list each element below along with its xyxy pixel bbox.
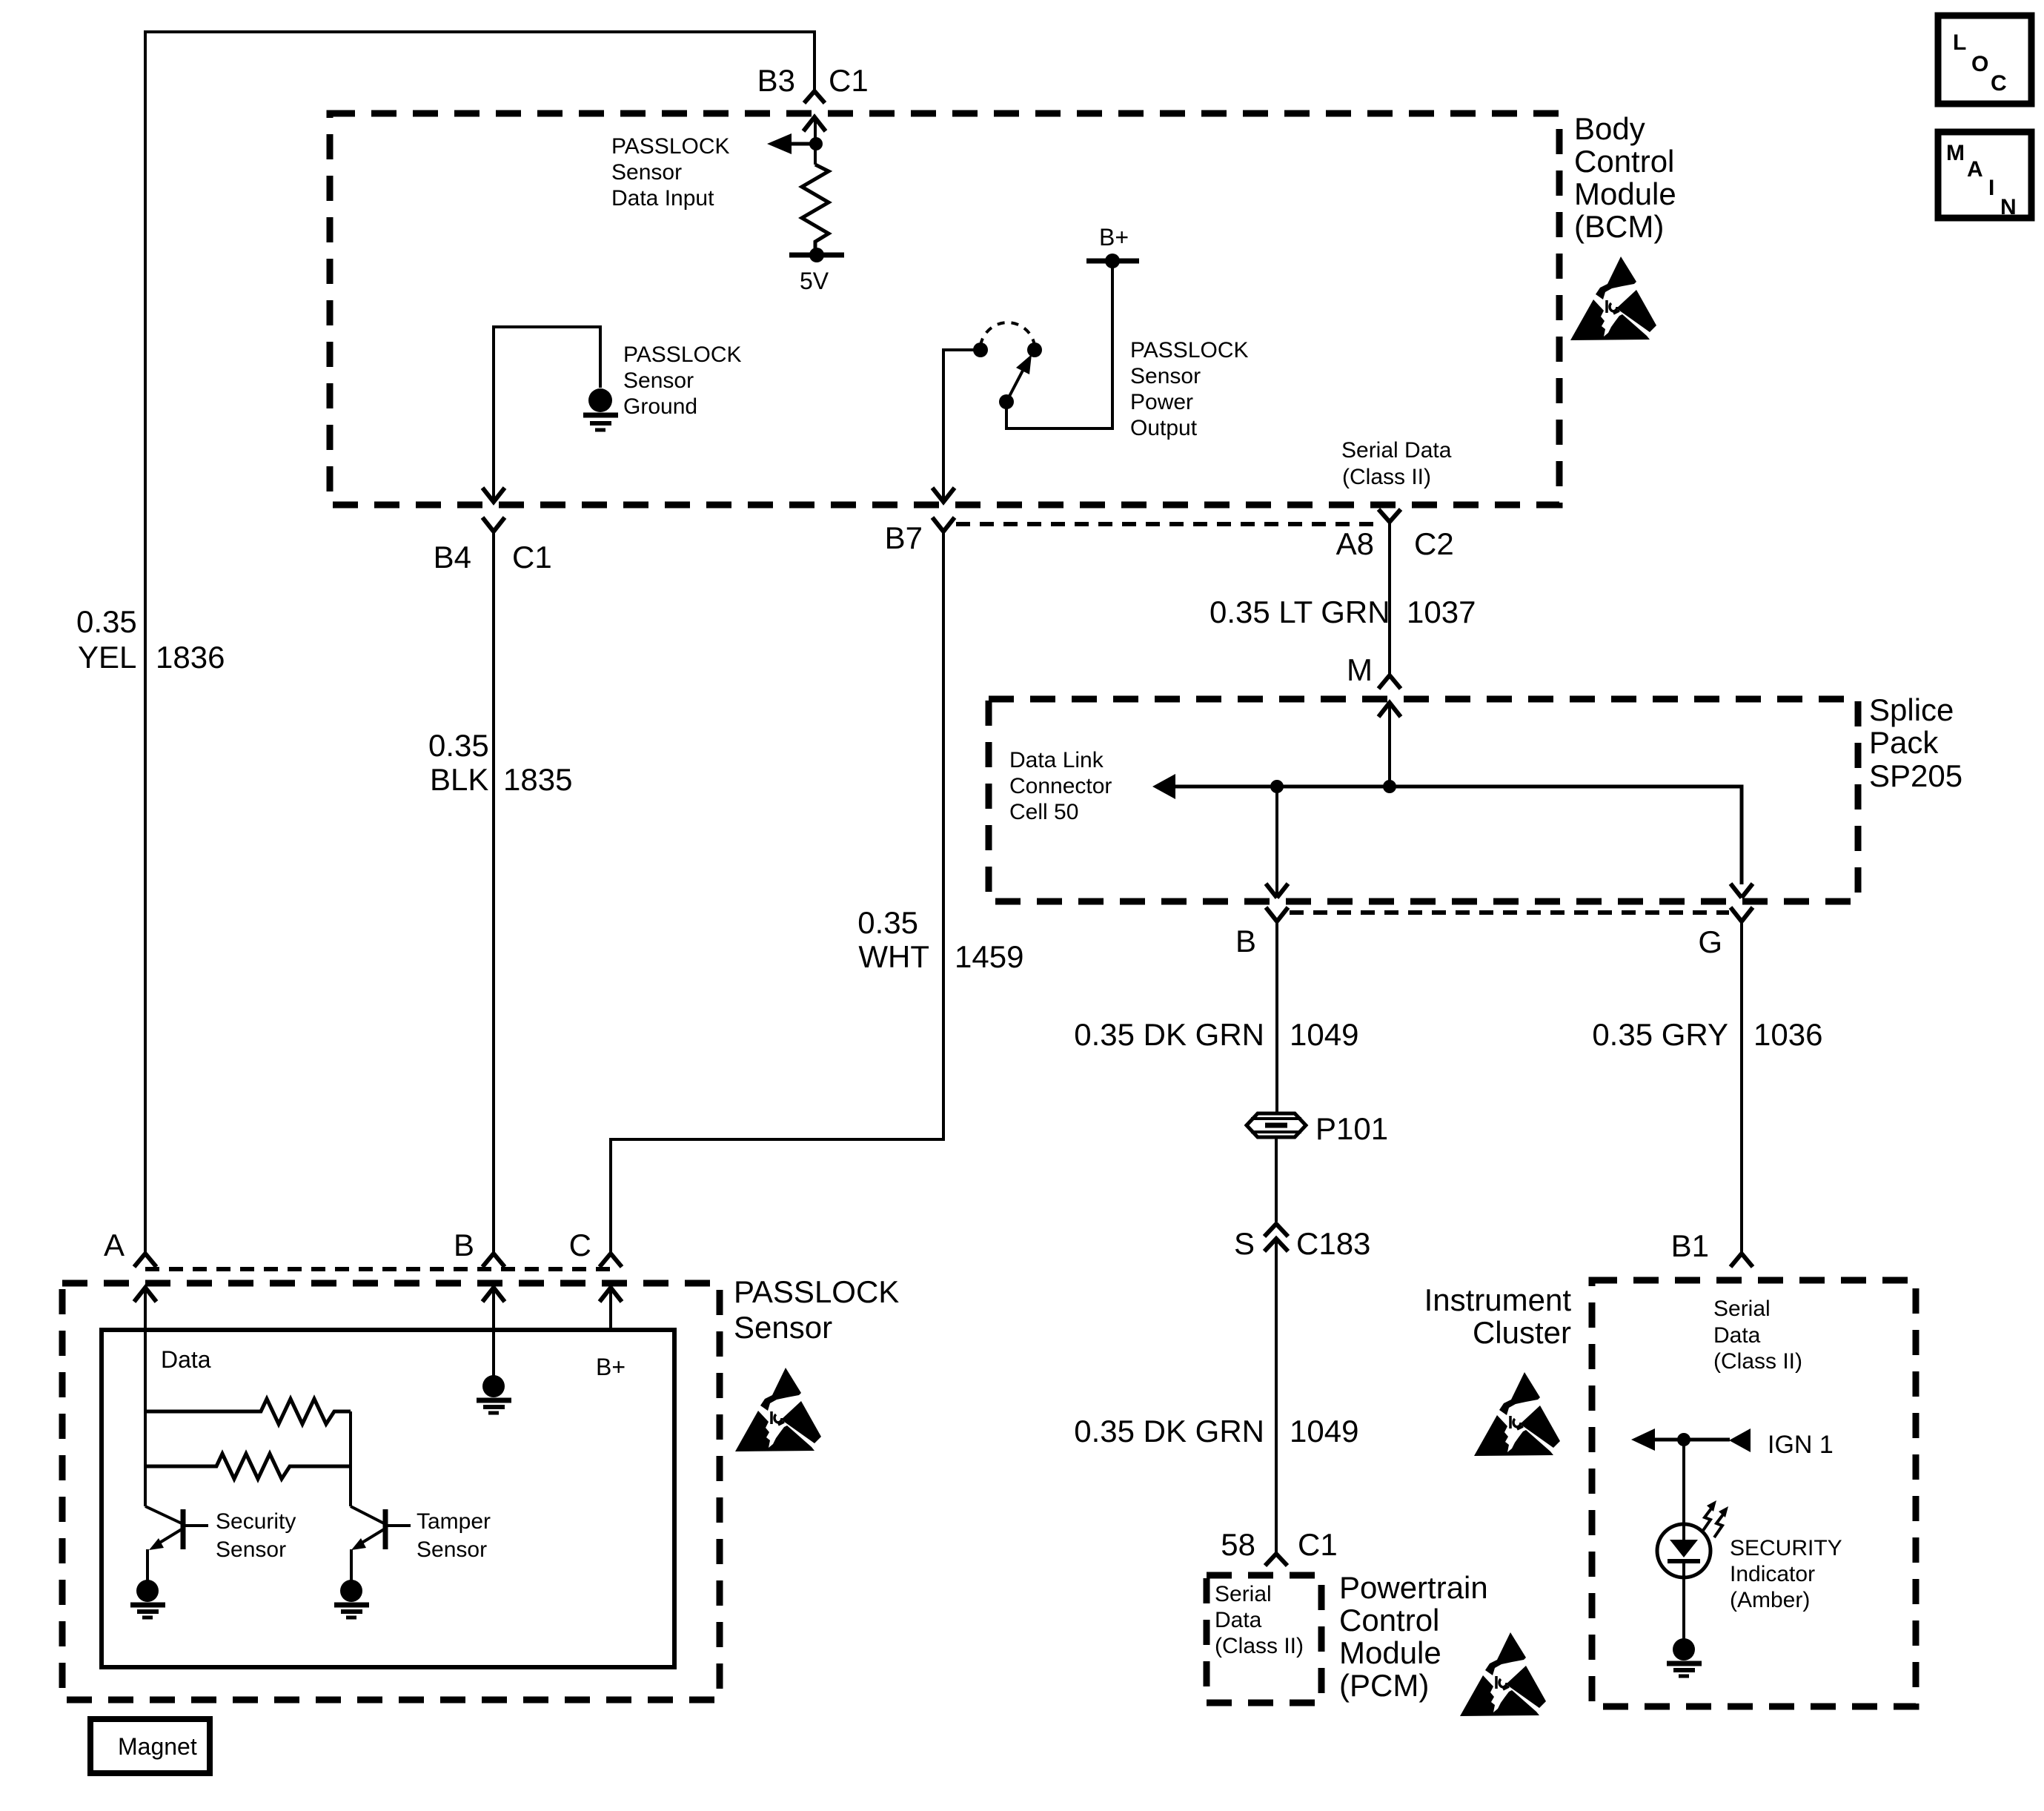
connector C1 terminal 58 (fork): [1265, 1554, 1287, 1566]
svg-text:Ground: Ground: [623, 394, 697, 419]
connector terminal M (fork): [1378, 675, 1401, 689]
svg-text:Pack: Pack: [1869, 725, 1939, 760]
svg-text:Module: Module: [1574, 176, 1676, 211]
arrow out of SP205 at B: [1266, 884, 1288, 898]
wire pin C internal: [609, 1288, 612, 1330]
ESD symbol (BCM): [1570, 256, 1656, 340]
arrow into SP205 at M: [1378, 703, 1401, 717]
MAIN reference box: [1938, 132, 2031, 219]
svg-text:(Class II): (Class II): [1342, 465, 1431, 489]
svg-text:1835: 1835: [503, 762, 572, 797]
svg-text:A: A: [104, 1228, 125, 1262]
svg-text:1049: 1049: [1290, 1414, 1358, 1449]
wire: BCM internal ground trace to pin B4: [494, 327, 600, 502]
label Data Link Connector Cell 50: [1009, 748, 1112, 824]
label wire 0.35 BLK: [428, 728, 489, 797]
svg-text:Control: Control: [1574, 144, 1674, 179]
connector terminal B1 (fork): [1731, 1254, 1753, 1267]
Body Control Module (BCM) dashed box: [330, 113, 1559, 505]
transistor security sensor: [145, 1506, 208, 1580]
svg-text:B1: B1: [1671, 1228, 1709, 1263]
svg-text:58: 58: [1221, 1527, 1255, 1562]
LED SECURITY indicator: [1657, 1524, 1710, 1639]
wire pin A internal: [144, 1288, 147, 1506]
wire M arrow to splice bus: [1388, 703, 1391, 787]
label Tamper Sensor: [417, 1509, 491, 1562]
svg-text:C2: C2: [1414, 526, 1454, 561]
svg-text:1459: 1459: [955, 939, 1023, 974]
label Instrument Cluster: [1424, 1282, 1572, 1350]
light emission arrows: [1702, 1506, 1725, 1537]
ground dot (security emitter): [136, 1580, 159, 1602]
resistor R1 (tamper): [145, 1399, 351, 1424]
ground symbol (Passlock Sensor Ground): [583, 415, 618, 430]
svg-text:Data: Data: [1215, 1608, 1262, 1632]
svg-text:0.35: 0.35: [428, 728, 489, 763]
svg-text:0.35 DK GRN: 0.35 DK GRN: [1074, 1017, 1264, 1052]
arrow to Passlock Sensor Data Input: [792, 142, 816, 146]
svg-text:P101: P101: [1315, 1111, 1388, 1146]
wire: BCM B7 to sensor pin C (0.35 WHT 1459): [611, 532, 943, 1254]
arrow into sensor at A: [134, 1288, 156, 1302]
label Security Sensor: [216, 1509, 296, 1562]
svg-text:Sensor: Sensor: [1130, 364, 1201, 388]
wire pin B internal to ground: [492, 1288, 495, 1376]
arrow out of SP205 at G: [1731, 884, 1753, 898]
connector terminal B (fork): [1266, 907, 1288, 921]
junction dot IGN1: [1677, 1433, 1690, 1446]
svg-text:YEL: YEL: [78, 640, 136, 675]
svg-text:Sensor: Sensor: [417, 1537, 487, 1562]
Passlock Sensor dashed box: [62, 1283, 720, 1700]
svg-text:A8: A8: [1336, 526, 1374, 561]
svg-text:0.35 LT GRN: 0.35 LT GRN: [1210, 595, 1390, 629]
svg-text:Splice: Splice: [1869, 692, 1954, 727]
ground symbol (tamper): [334, 1605, 369, 1618]
wire IGN1 to LED: [1682, 1440, 1685, 1540]
svg-text:Data: Data: [1713, 1323, 1761, 1348]
sensor inner solid box: [102, 1330, 674, 1667]
ground symbol (indicator): [1667, 1663, 1702, 1676]
switch travel dashed arc: [980, 322, 1035, 345]
dot on B+ bar: [1105, 254, 1120, 268]
switch upper-right contact dot: [1027, 342, 1042, 357]
svg-text:Data Input: Data Input: [611, 186, 714, 211]
svg-text:PASSLOCK: PASSLOCK: [611, 134, 730, 159]
svg-text:0.35: 0.35: [857, 905, 918, 940]
IGN 1 feed line: [1655, 1438, 1730, 1442]
switch arm with arrowhead: [1006, 369, 1023, 402]
arrow to Data Link Connector: [1152, 774, 1175, 799]
arrow from IGN 1: [1729, 1428, 1751, 1452]
Splice Pack SP205 dashed box: [989, 699, 1858, 901]
label Powertrain Control Module (PCM): [1339, 1570, 1488, 1703]
svg-text:B3: B3: [757, 63, 795, 98]
ESD symbol (Instrument Cluster): [1474, 1372, 1560, 1456]
switch upper-left contact dot: [973, 342, 988, 357]
connector terminal B fork (sensor): [482, 1254, 505, 1267]
resistor R2 (security): [145, 1454, 351, 1479]
svg-text:B: B: [454, 1228, 474, 1262]
wire P101 to C183: [1275, 1137, 1278, 1222]
connector C1 terminal B3 (fork): [804, 91, 825, 103]
arrow left (IGN 1 bus): [1631, 1428, 1655, 1451]
thin dashed connector line (sensor A to C): [145, 1267, 611, 1271]
connector terminal C fork (sensor): [600, 1254, 622, 1267]
wire: BCM A8 to splice pack M (0.35 LT GRN 1037): [1388, 522, 1391, 675]
label Serial Data (Class II) cluster: [1713, 1297, 1802, 1374]
arrow out of BCM at B7: [932, 488, 955, 502]
svg-text:1049: 1049: [1290, 1017, 1358, 1052]
svg-text:Instrument: Instrument: [1424, 1282, 1572, 1317]
label wire 0.35 WHT: [857, 905, 929, 974]
svg-text:Output: Output: [1130, 416, 1198, 440]
svg-text:Power: Power: [1130, 390, 1193, 414]
svg-text:Data Link: Data Link: [1009, 748, 1104, 772]
svg-text:G: G: [1698, 924, 1722, 959]
Instrument Cluster dashed box: [1592, 1280, 1916, 1706]
svg-text:Sensor: Sensor: [611, 160, 682, 185]
svg-text:B+: B+: [596, 1354, 626, 1380]
svg-text:A: A: [1967, 157, 1983, 182]
svg-text:IGN 1: IGN 1: [1768, 1431, 1834, 1459]
svg-text:C: C: [569, 1228, 591, 1262]
junction dot splice B: [1270, 780, 1284, 793]
svg-text:WHT: WHT: [858, 939, 929, 974]
svg-text:0.35: 0.35: [76, 604, 137, 639]
svg-text:C1: C1: [1298, 1527, 1338, 1562]
ground symbol (sensor): [477, 1400, 511, 1413]
svg-text:PASSLOCK: PASSLOCK: [734, 1274, 899, 1309]
label PASSLOCK Sensor Data Input: [611, 134, 730, 211]
grommet P101: [1247, 1113, 1306, 1137]
5V supply bar: [789, 253, 844, 258]
svg-text:(Class II): (Class II): [1215, 1634, 1304, 1658]
arrow into sensor at B: [482, 1288, 505, 1302]
svg-text:PASSLOCK: PASSLOCK: [623, 342, 742, 367]
ground symbol (security): [130, 1605, 165, 1618]
svg-text:SECURITY: SECURITY: [1730, 1536, 1842, 1560]
svg-text:S: S: [1234, 1226, 1255, 1261]
svg-text:B4: B4: [434, 540, 471, 575]
label SECURITY Indicator (Amber): [1730, 1536, 1842, 1612]
svg-text:Serial: Serial: [1215, 1582, 1272, 1606]
ESD symbol (Passlock Sensor): [735, 1368, 821, 1451]
svg-text:SP205: SP205: [1869, 758, 1962, 793]
arrow into sensor at C: [600, 1288, 622, 1302]
label PASSLOCK Sensor Ground: [623, 342, 742, 419]
inline connector C183 (double chevron): [1264, 1224, 1288, 1251]
label Serial Data (Class II) PCM: [1215, 1582, 1304, 1658]
wire B3 arrow to resistor: [814, 117, 817, 165]
svg-text:1036: 1036: [1753, 1017, 1822, 1052]
resistor (BCM 5V pull-up): [802, 165, 829, 255]
label Splice Pack SP205: [1869, 692, 1962, 793]
svg-text:Data: Data: [161, 1346, 211, 1373]
svg-text:(Class II): (Class II): [1713, 1349, 1802, 1374]
svg-text:1037: 1037: [1407, 595, 1476, 629]
label wire 0.35 YEL: [76, 604, 137, 675]
svg-text:Cell 50: Cell 50: [1009, 800, 1078, 824]
wire resistor node to tamper collector: [349, 1411, 352, 1506]
LOC reference box: [1938, 16, 2031, 104]
svg-text:0.35 DK GRN: 0.35 DK GRN: [1074, 1414, 1264, 1449]
connector terminal A (fork): [134, 1254, 156, 1267]
svg-text:PASSLOCK: PASSLOCK: [1130, 338, 1249, 362]
svg-text:C1: C1: [829, 63, 869, 98]
svg-text:C183: C183: [1296, 1226, 1370, 1261]
wire B+ to switch common: [1006, 261, 1112, 428]
svg-text:(BCM): (BCM): [1574, 209, 1664, 244]
svg-text:Tamper: Tamper: [417, 1509, 491, 1534]
arrow into BCM at B3: [803, 117, 826, 131]
label Serial Data (Class II) BCM: [1341, 438, 1452, 489]
svg-text:5V: 5V: [800, 268, 829, 294]
junction dot splice M: [1383, 780, 1396, 793]
svg-text:Sensor: Sensor: [734, 1310, 832, 1345]
wire: Passlock sensor pin A to BCM pin B3 (0.35 YEL 1836): [145, 32, 814, 1254]
thin dashed connector line C1 (B7 to A8 span): [956, 522, 1377, 526]
ground dot (indicator): [1673, 1638, 1695, 1661]
wire switch to pin B7: [943, 350, 980, 502]
ground dot (Passlock Sensor Ground): [588, 388, 612, 412]
wire: BCM B4 to sensor pin B (0.35 BLK 1835): [492, 532, 495, 1254]
svg-text:C1: C1: [512, 540, 552, 575]
svg-text:Sensor: Sensor: [623, 368, 694, 393]
thin dashed connector line (B to G): [1290, 910, 1729, 915]
label PASSLOCK Sensor: [734, 1274, 899, 1345]
svg-text:(Amber): (Amber): [1730, 1588, 1810, 1612]
svg-text:L: L: [1953, 30, 1966, 55]
wire: splice G to cluster B1 (0.35 GRY 1036): [1740, 921, 1743, 1254]
ground dot (sensor B+ return): [482, 1375, 505, 1397]
svg-text:Serial: Serial: [1713, 1297, 1771, 1321]
ground dot (tamper emitter): [340, 1580, 362, 1602]
label PASSLOCK Sensor Power Output: [1130, 338, 1249, 440]
svg-text:Connector: Connector: [1009, 774, 1112, 798]
ESD symbol (PCM): [1460, 1632, 1546, 1716]
svg-text:Control: Control: [1339, 1603, 1439, 1638]
svg-text:M: M: [1347, 652, 1373, 687]
svg-text:N: N: [2000, 195, 2017, 219]
svg-text:Body: Body: [1574, 111, 1645, 146]
wire splice to terminal B: [1275, 787, 1278, 898]
svg-text:Serial Data: Serial Data: [1341, 438, 1452, 463]
svg-text:Module: Module: [1339, 1635, 1441, 1670]
svg-text:B7: B7: [885, 520, 923, 555]
wire: C183 to PCM 58 (0.35 DK GRN 1049): [1275, 1242, 1278, 1554]
svg-text:O: O: [1971, 52, 1988, 76]
svg-text:B: B: [1235, 924, 1256, 959]
svg-text:B+: B+: [1099, 224, 1129, 251]
svg-text:C: C: [1991, 71, 2007, 96]
svg-text:(PCM): (PCM): [1339, 1668, 1429, 1703]
connector C2 terminal A8 (fork below BCM): [1378, 509, 1401, 522]
svg-text:1836: 1836: [156, 640, 225, 675]
svg-text:M: M: [1946, 141, 1965, 165]
connector C1 terminal B4 (fork): [482, 517, 505, 532]
connector C1 terminal B7 (fork): [932, 517, 955, 532]
svg-text:BLK: BLK: [430, 762, 488, 797]
svg-text:Sensor: Sensor: [216, 1537, 286, 1562]
svg-text:Powertrain: Powertrain: [1339, 1570, 1488, 1605]
transistor tamper sensor: [351, 1506, 411, 1580]
svg-text:I: I: [1988, 176, 1994, 200]
connector terminal G (fork): [1731, 907, 1753, 921]
Powertrain Control Module dashed box: [1207, 1575, 1321, 1703]
junction dot 5V: [809, 248, 824, 262]
Magnet box: [90, 1719, 210, 1773]
switch common contact dot: [999, 394, 1014, 409]
svg-text:Cluster: Cluster: [1473, 1315, 1571, 1350]
junction dot (data input node): [809, 137, 823, 150]
arrow out of BCM at B4: [482, 488, 505, 502]
svg-text:Indicator: Indicator: [1730, 1562, 1815, 1586]
svg-text:Security: Security: [216, 1509, 296, 1534]
splice bus wire: [1175, 787, 1742, 884]
svg-text:0.35 GRY: 0.35 GRY: [1592, 1017, 1728, 1052]
label Body Control Module (BCM): [1574, 111, 1676, 244]
svg-text:Magnet: Magnet: [118, 1733, 197, 1760]
wire: splice B to P101 (0.35 DK GRN 1049): [1275, 921, 1278, 1113]
B+ supply bar (BCM switch): [1086, 259, 1139, 264]
